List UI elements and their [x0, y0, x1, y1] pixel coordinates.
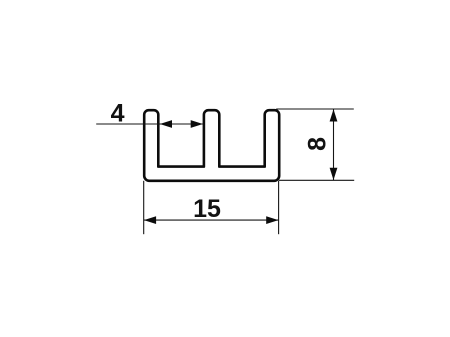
dimension 4: right arrowhead — [191, 120, 203, 128]
dimension 15: left extension line — [143, 181, 145, 234]
dimension 8: down arrowhead — [330, 168, 338, 180]
profile outline (U-channel with middle rib, cross-section) — [144, 110, 279, 181]
dimension 4: left arrowhead — [160, 120, 172, 128]
svg-text:4: 4 — [111, 100, 125, 128]
dimension 15: right extension line — [278, 181, 280, 234]
dimension 15: horizontal dimension line — [144, 219, 279, 221]
dimension 4: leader and dimension line — [96, 123, 203, 125]
svg-text:8: 8 — [303, 137, 331, 151]
dimension 15: left arrowhead — [144, 216, 156, 224]
dimension 8: top extension line — [276, 108, 354, 110]
dimension 8: bottom extension line — [279, 179, 355, 181]
dimension 15: right arrowhead — [266, 216, 278, 224]
dimension 8: up arrowhead — [330, 109, 338, 121]
svg-text:15: 15 — [193, 195, 221, 223]
dimension 8: vertical dimension line — [333, 109, 335, 180]
